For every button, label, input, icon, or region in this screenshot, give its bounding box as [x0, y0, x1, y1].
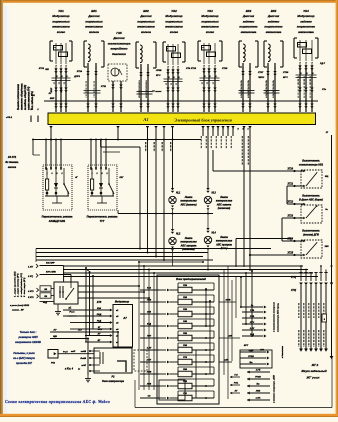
resistor in SA1 [46, 179, 49, 190]
resistor in SA2 [91, 179, 94, 190]
connector rail above ECU [44, 100, 318, 102]
wires across middle-bottom [203, 265, 303, 267]
wires from УА3 to connector [203, 68, 205, 113]
ground near relay [87, 375, 89, 379]
connector strip ВК4 [264, 90, 280, 92]
svg-text:1: 1 [209, 99, 210, 101]
svg-text:1: 1 [121, 99, 122, 101]
svg-text:механизмов: механизмов [52, 25, 70, 29]
pin к4 of А7 [110, 328, 113, 331]
diode in SA1 [54, 183, 58, 188]
svg-text:тормозного: тормозного [239, 25, 257, 29]
svg-text:схема навесная (ЗЧ): схема навесная (ЗЧ) [29, 86, 31, 110]
modulator УА2 [163, 41, 166, 43]
svg-text:БРЧ: БРЧ [283, 77, 288, 79]
connector strip ВК3 [239, 90, 255, 92]
svg-text:заднего: заднего [268, 19, 280, 23]
svg-text:ЧВ: ЧВ [44, 296, 48, 298]
svg-text:УА3: УА3 [207, 9, 213, 13]
svg-text:ХТ22: ХТ22 [287, 202, 294, 204]
svg-text:НL1: НL1 [176, 193, 181, 195]
svg-text:механизма: механизма [241, 30, 257, 34]
svg-text:кчАВ: кчАВ [81, 351, 87, 353]
svg-text:РАД: РАД [97, 320, 102, 322]
wire routing corner [100, 140, 102, 148]
wire hook SB1-SB2 [287, 185, 295, 187]
svg-text:тормозного: тормозного [297, 25, 315, 29]
svg-text:1: 1 [96, 99, 97, 101]
fuse F7В [159, 361, 166, 363]
svg-text:АБС прицепа: АБС прицепа [215, 243, 232, 246]
wires from ВК4 to connector [267, 63, 269, 112]
svg-text:1: 1 [300, 99, 301, 101]
svg-text:АБС тягача: АБС тягача [216, 203, 232, 206]
svg-text:+УВ.1: +УВ.1 [6, 117, 13, 119]
svg-text:1: 1 [61, 99, 62, 101]
svg-text:Модулятор: Модулятор [115, 301, 130, 304]
svg-text:ЖЕЛ: ЖЕЛ [61, 87, 63, 93]
mode switch SA1 [43, 165, 72, 210]
svg-text:1: 1 [204, 99, 205, 101]
svg-text:Лампа: Лампа [219, 236, 228, 239]
svg-text:ХТ20: ХТ20 [287, 169, 294, 171]
svg-text:Эл двигат.: Эл двигат. [5, 161, 19, 164]
svg-text:F6В: F6В [183, 345, 187, 347]
svg-text:напряжение 12/24В: напряжение 12/24В [15, 340, 41, 344]
svg-text:Лампа: Лампа [184, 237, 193, 240]
svg-text:ГА5: ГА5 [116, 31, 122, 35]
svg-text:контрольная: контрольная [180, 200, 197, 203]
svg-text:к Юн. 4: к Юн. 4 [65, 368, 74, 371]
connector symbol [48, 350, 58, 359]
svg-text:заднего: заднего [243, 19, 255, 23]
svg-text:ХТ25: ХТ25 [287, 253, 294, 255]
vertical wire bundle right-centre [207, 134, 209, 188]
svg-text:из-з (БАТ) джгут: из-з (БАТ) джгут [13, 356, 36, 360]
ECU block А1 [48, 113, 316, 125]
svg-text:РТ тили: РТ тили [152, 91, 162, 93]
connector strip УА1 [52, 77, 71, 79]
svg-text:1: 1 [113, 99, 114, 101]
indicator lamp НL3 [204, 196, 211, 203]
pin к6 of А7 [110, 341, 113, 344]
svg-text:навесного оборудован.: навесного оборудован. [21, 83, 24, 110]
svg-text:ХТн: ХТн [321, 89, 327, 91]
svg-text:кч/Л: кч/Л [71, 351, 76, 353]
svg-text:механизма: механизма [266, 30, 282, 34]
indicator lamp НL4 [204, 236, 211, 243]
connector strip УА3 [200, 77, 220, 79]
svg-text:тормозных: тормозных [52, 19, 70, 23]
boxed tag on harness wire [322, 314, 327, 322]
wire colour labels [240, 80, 242, 98]
svg-text:тормозных: тормозных [137, 19, 155, 23]
svg-text:В-Датч АБС (борт): В-Датч АБС (борт) [299, 198, 323, 201]
wires from ВК1 to connector [87, 63, 89, 112]
svg-text:F2В: F2В [183, 297, 187, 299]
svg-text:Реле компрессора: Реле компрессора [102, 380, 125, 383]
feed wire for fuse F6В [140, 349, 159, 351]
svg-text:2 - жгут штекер (ЗЧ): 2 - жгут штекер (ЗЧ) [18, 273, 20, 298]
svg-text:ПАД: ПАД [97, 314, 102, 316]
feed wire for fuse F2В [140, 301, 159, 303]
svg-text:УА4: УА4 [303, 9, 309, 13]
wires from УА1 to connector [55, 68, 57, 113]
svg-text:ХТ17: ХТ17 [257, 72, 264, 74]
svg-text:ЛУ: ЛУ [234, 391, 238, 393]
modulator УА4 [294, 37, 297, 39]
pin к1 of А7 [110, 309, 113, 312]
svg-text:1: 1 [306, 99, 307, 101]
feed wire for fuse F8В [140, 373, 159, 375]
svg-text:5 ХТ2: 5 ХТ2 [28, 297, 34, 299]
wires from ECU down (right pair) [242, 126, 245, 129]
feed wire for fuse F10 [140, 397, 159, 399]
svg-text:тЗЛ: тЗЛ [81, 365, 86, 367]
junction dots [50, 139, 52, 141]
svg-text:провода 217: провода 217 [16, 361, 32, 365]
svg-text:тормозных: тормозных [85, 19, 103, 23]
svg-text:ХТ13: ХТ13 [38, 68, 45, 70]
svg-text:на кабель общий (АБ): на кабель общий (АБ) [24, 85, 27, 110]
svg-text:контрольная: контрольная [180, 241, 197, 244]
sensor ВК1 [84, 40, 87, 42]
svg-text:4 - общий кабель (ЗЧ): 4 - общий кабель (ЗЧ) [20, 273, 23, 298]
svg-text:УА2: УА2 [171, 9, 177, 13]
boxed wire tags [40, 286, 51, 291]
connector strip ВК2 [137, 91, 153, 93]
small arrows bottom-centre [230, 376, 232, 378]
horizontal wire y139.5 [33, 139, 201, 141]
svg-text:ХТ21: ХТ21 [287, 184, 294, 186]
wires from ECU down (centre group) [201, 126, 204, 129]
svg-text:F3В: F3В [183, 309, 187, 311]
svg-text:сигнализатора НВ1: сигнализатора НВ1 [299, 163, 324, 166]
dashed box right of Р2 [134, 350, 147, 371]
svg-text:БРТ: БРТ [244, 345, 249, 347]
svg-text:1: 1 [250, 99, 251, 101]
connector strip УА2 [164, 78, 183, 80]
fuse block [157, 275, 219, 404]
svg-text:ХТ8: ХТ8 [96, 301, 102, 304]
svg-text:Датчик: Датчик [267, 14, 280, 18]
connector arrows column (lower) [247, 371, 250, 374]
feed wire for fuse F3В [140, 313, 159, 315]
svg-text:ЗАМЕДЛ НВ1: ЗАМЕДЛ НВ1 [49, 220, 66, 223]
svg-text:сигнализатора: сигнализатора [108, 41, 131, 45]
svg-text:ЧЕРН: ЧЕРН [258, 77, 264, 79]
svg-text:Выключатель: Выключатель [302, 194, 320, 197]
svg-text:колеса: колеса [141, 30, 151, 34]
svg-text:1: 1 [268, 99, 269, 101]
svg-text:2: 2 [106, 173, 108, 175]
svg-text:1: 1 [141, 99, 142, 101]
svg-text:РУЗВ: РУЗВ [255, 377, 261, 379]
svg-text:Модулятор: Модулятор [297, 14, 314, 18]
connector arrows column (middle) [240, 351, 266, 353]
mode switch SA2 [88, 165, 117, 210]
svg-text:РъЛ: РъЛ [63, 352, 68, 354]
svg-text:Разъемы, к реле: Разъемы, к реле [13, 351, 35, 355]
svg-text:БЕЛ: БЕЛ [50, 98, 55, 100]
svg-text:КЗ/-ЛЯР: КЗ/-ЛЯР [46, 263, 55, 265]
connector arrows column (upper) [242, 306, 263, 308]
lamp wires [172, 134, 174, 188]
svg-text:Модулятор: Модулятор [52, 14, 69, 18]
harness end arrows [299, 349, 303, 352]
svg-text:ЧВ: ЧВ [44, 289, 48, 291]
relay К1 [54, 282, 78, 304]
wires from ВК3 to connector [242, 63, 244, 112]
svg-text:Датчик: Датчик [139, 14, 152, 18]
svg-text:РОЬ: РОЬ [234, 383, 239, 385]
wire y213.5 from mode switches to lamps [118, 213, 213, 215]
svg-text:тормозного: тормозного [264, 25, 282, 29]
connector strip УА4 [296, 74, 317, 76]
svg-text:ХТ15: ХТ15 [190, 68, 197, 70]
feed wire for fuse F5В [140, 337, 159, 339]
switch SB1 [301, 170, 322, 188]
wires from УА4 to connector [299, 65, 301, 113]
svg-text:Лампа: Лампа [184, 196, 193, 199]
fuse F10 [159, 397, 166, 399]
svg-text:зажим - ВУ: зажим - ВУ [12, 310, 24, 312]
fuse F4В [159, 325, 166, 327]
svg-text:Датчик: Датчик [242, 14, 255, 18]
svg-text:Выключатель: Выключатель [302, 159, 320, 162]
svg-text:2: 2 [96, 173, 98, 175]
wires from ВК2 to connector [140, 64, 142, 112]
modulator УА3 [198, 40, 201, 42]
svg-text:F7В: F7В [183, 357, 187, 359]
vertical wire bundle centre [147, 140, 149, 253]
svg-text:тормозных: тормозных [165, 19, 183, 23]
svg-text:КЗЧ-ЛЯВ: КЗЧ-ЛЯВ [46, 272, 56, 274]
bus bends [35, 249, 37, 263]
fuse F1В [159, 289, 166, 291]
svg-text:ХТ16: ХТ16 [221, 68, 228, 70]
wire from SB3 to bus [251, 254, 295, 256]
svg-text:ХТ14: ХТ14 [76, 70, 83, 73]
svg-text:А1: А1 [142, 117, 148, 122]
svg-text:механизмов: механизмов [165, 25, 183, 29]
svg-text:К2Г: К2Г [120, 177, 125, 179]
vertical feeds to fuse block [138, 262, 140, 390]
feed wire for fuse F1В [140, 289, 159, 291]
wire to switches y171 [213, 170, 295, 172]
svg-text:ЛчАВ: ЛчАВ [79, 358, 86, 360]
fuse F3В [159, 313, 166, 315]
svg-text:ХД-7: ХД-7 [319, 63, 326, 65]
svg-text:Л17: Л17 [77, 330, 83, 332]
wires from УА2 to connector [167, 69, 169, 113]
feed wire for fuse F7В [140, 361, 159, 363]
svg-text:F5В: F5В [183, 333, 187, 335]
feed wire for fuse F9В [140, 385, 159, 387]
wires from ГА5 [112, 81, 114, 112]
harness wire x332 [331, 135, 333, 356]
svg-text:контрольная: контрольная [216, 200, 233, 203]
svg-text:ХТ23: ХТ23 [287, 216, 294, 218]
indicator lamp НL2 [169, 237, 176, 244]
feed wire for fuse F4В [140, 325, 159, 327]
svg-text:1: 1 [215, 99, 216, 101]
svg-text:к выключателю контроля: к выключателю контроля [274, 302, 276, 332]
horizontal wire bus (middle) [36, 248, 271, 250]
horizontal wire bus (lower) [63, 265, 303, 267]
svg-text:механизмов: механизмов [201, 25, 219, 29]
svg-text:Переключатель режима: Переключатель режима [87, 216, 118, 219]
svg-text:РУЗВ: РУЗВ [248, 356, 254, 358]
svg-text:механизмов: механизмов [137, 25, 155, 29]
relay К1 outputs [78, 285, 139, 287]
vertical wires bottom right [235, 277, 237, 319]
svg-text:ТУТ: ТУТ [100, 220, 105, 223]
svg-text:1: 1 [178, 99, 179, 101]
fuse block internal risers [205, 290, 207, 326]
svg-text:тормозных: тормозных [201, 19, 219, 23]
svg-text:Реле: Реле [69, 312, 75, 314]
svg-text:ЗВ|: ЗВ| [325, 176, 329, 178]
svg-text:к датчикам: к датчикам [281, 345, 284, 358]
indicator lamp НL1 [169, 196, 176, 203]
svg-text:Схема электрическая принципиал: Схема электрическая принципиальная АБС ф… [5, 400, 110, 404]
svg-text:Переключатель режима: Переключатель режима [42, 216, 73, 219]
svg-text:1.УБ: 1.УБ [256, 370, 261, 372]
svg-text:Только для :: Только для : [20, 330, 37, 334]
wire КЗ/-ЛЯР [40, 265, 64, 267]
wire hook SB2-SB3 [282, 217, 295, 219]
svg-text:давления: давления [112, 52, 126, 56]
svg-text:колес: колес [57, 30, 66, 34]
sub box in fuse block [159, 380, 185, 400]
svg-text:колес: колес [206, 30, 215, 34]
switch contact in SA2 [108, 168, 110, 184]
svg-text:НL3: НL3 [212, 193, 217, 195]
svg-text:2: 2 [61, 173, 63, 175]
svg-text:Датчик: Датчик [112, 36, 125, 40]
svg-text:насоса: насоса [8, 166, 17, 169]
pin к3 of А7 [110, 321, 113, 324]
svg-text:1 ХТ!: 1 ХТ! [28, 267, 33, 269]
wires from ECU down (mid-left group) [146, 126, 149, 129]
svg-text:2: 2 [51, 173, 53, 175]
sensor ВК3 [239, 40, 242, 42]
svg-text:ЩВ: ЩВ [53, 336, 57, 338]
switch contact in SA1 [63, 168, 65, 184]
relay Р2 [94, 348, 132, 373]
svg-text:Выключатель: Выключатель [302, 229, 320, 232]
svg-text:Жгут кабельный: Жгут кабельный [300, 369, 326, 373]
sensor ВК4 [264, 40, 267, 42]
svg-text:Лампа: Лампа [219, 196, 228, 199]
svg-text:Еж: Еж [250, 362, 253, 364]
svg-text:1: 1 [148, 99, 149, 101]
svg-text:1: 1 [168, 99, 169, 101]
svg-text:ЛУ: ЛУ [48, 93, 52, 95]
svg-text:тЗА: тЗА [256, 398, 261, 400]
svg-text:к клемме стартера +24В: к клемме стартера +24В [273, 375, 276, 403]
svg-text:1: 1 [275, 99, 276, 101]
svg-text:1: 1 [88, 99, 89, 101]
ground for relay К1 [57, 304, 59, 308]
svg-text:Электронный блок управления: Электронный блок управления [174, 117, 232, 122]
switch SB2 [301, 205, 322, 223]
svg-text:НL2: НL2 [176, 234, 181, 236]
svg-text:А7: А7 [122, 316, 127, 320]
svg-text:контрольная: контрольная [216, 240, 233, 243]
harness arrows [299, 283, 303, 286]
wires into А7 [85, 268, 87, 342]
svg-text:ВК2: ВК2 [143, 9, 149, 13]
svg-text:КРЧ: КРЧ [156, 75, 161, 77]
fuse block outputs [219, 301, 236, 303]
svg-text:1: 1 [66, 99, 67, 101]
pin к5 of А7 [110, 334, 113, 337]
switch SB3 [301, 240, 322, 258]
svg-text:1 - жгут проводов (АБ): 1 - жгут проводов (АБ) [14, 271, 17, 297]
long verticals x244 x250 [243, 134, 245, 267]
svg-text:Л70В: Л70В [155, 70, 162, 72]
svg-text:F1В: F1В [183, 285, 187, 287]
svg-text:(запасная): (запасная) [218, 207, 231, 210]
fuse F5В [159, 337, 166, 339]
connector strip ВК1 [84, 90, 101, 92]
svg-text:ЛУ: ЛУ [53, 330, 58, 332]
svg-text:Блок предохранителей: Блок предохранителей [176, 278, 206, 281]
svg-text:ХТ11: ХТ11 [100, 86, 107, 88]
svg-text:НL4: НL4 [212, 232, 217, 235]
pin к2 of А7 [110, 315, 113, 318]
svg-text:аварийного: аварийного [111, 47, 128, 51]
connector box ХТ6 [240, 350, 272, 368]
svg-text:ВК4: ВК4 [271, 9, 277, 13]
svg-text:1: 1 [243, 99, 244, 101]
svg-text:АБС (тягача): АБС (тягача) [179, 203, 196, 206]
svg-text:колеса: колеса [89, 30, 99, 34]
svg-text:ВК3: ВК3 [246, 9, 252, 13]
svg-text:механизма: механизма [298, 30, 314, 34]
svg-text:УА1: УА1 [58, 9, 64, 13]
sensor ВК2 [136, 41, 139, 43]
svg-text:размеров ЗИЛ: размеров ЗИЛ [17, 335, 37, 339]
svg-text:5 - доп. жгут (ЗЧ): 5 - доп. жгут (ЗЧ) [23, 277, 26, 297]
svg-text:колес: колес [170, 30, 179, 34]
diode in SA2 [99, 183, 103, 188]
svg-text:ХТ18: ХТ18 [282, 72, 289, 74]
svg-text:1: 1 [56, 99, 57, 101]
svg-text:F4В: F4В [183, 320, 187, 323]
svg-text:заднего: заднего [300, 19, 312, 23]
wire corner to SB3 [235, 239, 237, 268]
svg-text:ВК1: ВК1 [91, 9, 97, 13]
svg-text:Еж: Еж [257, 384, 260, 386]
svg-text:Модулятор: Модулятор [201, 14, 218, 18]
wire КЗЧ-ЛЯВ [40, 274, 72, 276]
svg-text:сигнализатора АБС приц.: сигнализатора АБС приц. [278, 303, 280, 332]
fuse F9В [159, 385, 166, 387]
return wire bottom [135, 407, 332, 409]
svg-text:4 ХТ2: 4 ХТ2 [27, 290, 34, 293]
svg-text:1: 1 [247, 129, 248, 131]
svg-text:ХЗ ЭТ1: ХЗ ЭТ1 [7, 156, 17, 159]
page frame [0, 0, 338, 3]
svg-text:ДПУ1: ДПУ1 [73, 76, 81, 78]
svg-text:F8В: F8В [183, 369, 187, 371]
svg-text:1: 1 [173, 99, 174, 101]
svg-text:Датчик: Датчик [87, 14, 100, 18]
svg-text:к реле (или) НВ13: к реле (или) НВ13 [10, 305, 30, 307]
